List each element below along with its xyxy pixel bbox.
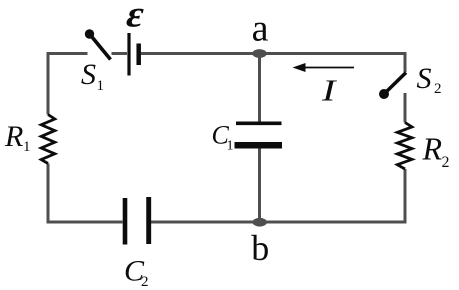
svg-text:2: 2 [434, 81, 442, 97]
svg-text:1: 1 [23, 139, 31, 155]
svg-text:I: I [321, 73, 338, 107]
wire S2 to R2 [404, 93, 407, 123]
svg-text:S: S [417, 62, 432, 95]
svg-text:a: a [252, 8, 269, 50]
battery EMF source [129, 33, 139, 76]
svg-text:1: 1 [227, 139, 234, 154]
resistor R1 [41, 115, 55, 164]
svg-text:R: R [4, 120, 23, 153]
wire R2 to bottom-right corner to C2 [151, 169, 405, 222]
switch S1 [85, 29, 111, 59]
svg-text:S: S [81, 58, 96, 91]
wire S1 to battery [112, 52, 128, 55]
wire node a to C1 [258, 54, 261, 122]
svg-text:R: R [422, 131, 443, 167]
node a [252, 49, 266, 58]
svg-text:2: 2 [442, 154, 450, 171]
capacitor C2 [125, 197, 149, 245]
resistor R2 [397, 123, 412, 170]
current arrow [293, 63, 355, 72]
wire battery to top-right corner to S2 [141, 54, 405, 73]
wire C1 to node b [258, 149, 261, 223]
capacitor C1 [235, 123, 283, 145]
node b [253, 218, 267, 227]
wire C2 to bottom-left corner to R1 [48, 164, 123, 223]
label EMF [122, 0, 149, 35]
svg-text:1: 1 [97, 78, 105, 94]
switch S2 [379, 73, 406, 100]
label I [321, 73, 338, 107]
svg-text:b: b [251, 228, 269, 268]
wire top-left corner to S1 [48, 54, 88, 115]
svg-text:2: 2 [141, 274, 149, 290]
